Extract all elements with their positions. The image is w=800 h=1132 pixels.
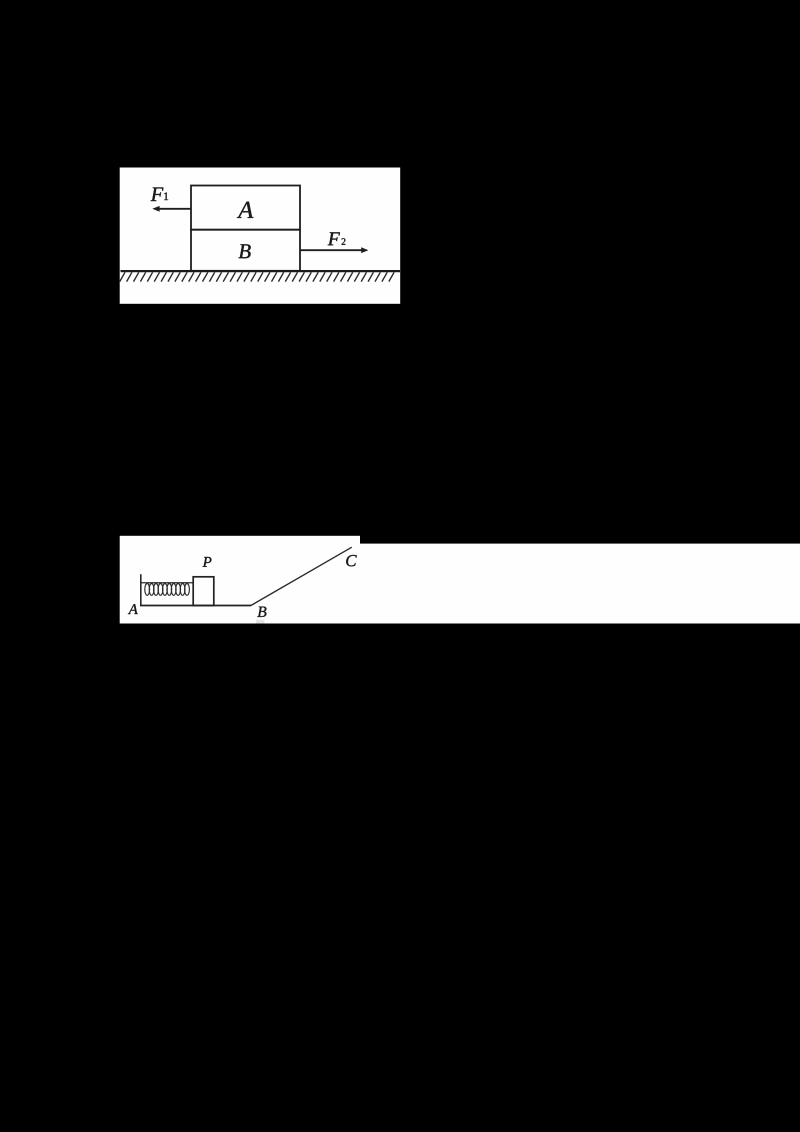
white panel (diagram 2 left part) — [120, 536, 360, 624]
ground line A-B (diagram 2) — [140, 605, 251, 607]
label C — [346, 555, 357, 566]
wall (diagram 2) — [140, 574, 142, 606]
white panel (diagram 2 right part) — [360, 544, 800, 624]
label B (diagram 2) — [257, 607, 266, 617]
force arrow F1 — [152, 206, 191, 212]
ground hatching (diagram 1) — [120, 272, 394, 281]
spring top line — [141, 582, 193, 584]
block P — [193, 577, 214, 606]
label A — [237, 202, 254, 218]
label B — [239, 244, 251, 258]
ground line (diagram 1) — [121, 270, 401, 272]
faint artifact below B — [256, 620, 264, 624]
white panel (diagram 1) — [120, 168, 401, 304]
spring coils — [145, 584, 190, 596]
label A (diagram 2) — [128, 604, 138, 614]
label F2 — [328, 232, 346, 245]
block B — [191, 230, 300, 271]
label P — [203, 557, 212, 567]
block A — [191, 186, 300, 230]
incline B-C — [251, 547, 352, 605]
label F1 — [151, 188, 169, 202]
force arrow F2 — [300, 247, 368, 253]
